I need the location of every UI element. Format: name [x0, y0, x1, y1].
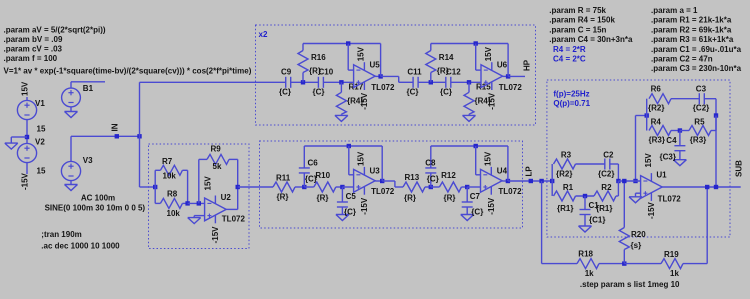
svg-text:TL072: TL072 — [499, 83, 523, 92]
resistor R15 — [464, 92, 474, 114]
behavioral source B1 — [62, 88, 81, 107]
svg-text:C4 = 2*C: C4 = 2*C — [553, 55, 586, 64]
ground C1 — [579, 226, 592, 232]
node T2 to minus — [633, 179, 637, 183]
wire C6 up — [303, 146, 305, 168]
svg-text:R6: R6 — [651, 84, 662, 93]
svg-text:SUB: SUB — [735, 160, 744, 177]
wire R5 left lead — [680, 130, 689, 132]
svg-text:.param C4 = 30n+3n*a: .param C4 = 30n+3n*a — [549, 35, 633, 44]
wire LP2 minus drop — [475, 146, 477, 175]
label R10 — [315, 171, 330, 180]
label HP — [523, 59, 532, 71]
wire LP1 minus drop — [348, 146, 350, 175]
svg-text:Q(p)=0.71: Q(p)=0.71 — [553, 99, 590, 108]
label C12 — [446, 68, 461, 77]
text .param R — [549, 6, 606, 15]
wire R16 bottom lead — [302, 73, 304, 83]
svg-text:TL072: TL072 — [498, 187, 522, 196]
wire C8 down — [430, 173, 432, 187]
svg-text:R20: R20 — [631, 230, 646, 239]
wire U5 to C11 — [381, 75, 399, 77]
wire U5 fb up — [380, 44, 382, 77]
wire R7R8 left — [154, 170, 156, 203]
value {C1} of C1 — [589, 216, 605, 225]
value {R2} of R6 — [648, 104, 664, 113]
value {C} of C11 — [407, 87, 419, 96]
value SINE — [45, 204, 146, 213]
ground C7 — [461, 215, 474, 221]
wire U2 plus lead — [194, 215, 204, 217]
value {R} of R11 — [277, 193, 289, 202]
node R9 branch — [197, 201, 201, 205]
value {C} of C6 — [305, 174, 317, 183]
svg-text:R18: R18 — [578, 249, 593, 258]
svg-text:V3: V3 — [83, 156, 93, 165]
wire V1-V2 — [26, 120, 28, 144]
label R12 — [441, 171, 456, 180]
ground C4 — [673, 160, 686, 166]
text .param R3 — [651, 35, 734, 44]
wire R9 right lead — [229, 158, 238, 160]
svg-text:{C}: {C} — [279, 87, 291, 96]
node T1 in — [550, 179, 554, 183]
wire R19 up — [706, 187, 708, 264]
ground U1 plus — [629, 197, 642, 203]
label -15V U6 — [488, 92, 497, 110]
svg-text:C6: C6 — [308, 158, 319, 167]
svg-text:{C}: {C} — [407, 87, 419, 96]
value {R3} of R5 — [690, 136, 706, 145]
label R1 — [563, 183, 574, 192]
resistor R5 — [689, 126, 711, 136]
wire R13 right lead — [425, 186, 431, 188]
node LP2 minus branch — [474, 144, 478, 148]
label x2 — [259, 30, 268, 39]
wire to C11 — [399, 81, 413, 83]
svg-text:C10: C10 — [319, 68, 334, 77]
wire R10 right lead — [336, 186, 343, 188]
value {C} of C12 — [440, 87, 452, 96]
value 1k R19 — [670, 269, 679, 278]
label R2 — [601, 183, 612, 192]
svg-text:.param R1 = 21k-1k*a: .param R1 = 21k-1k*a — [651, 16, 732, 25]
node C4 tap — [678, 128, 682, 132]
op-amp U1 — [641, 173, 663, 201]
svg-text:C8: C8 — [425, 158, 436, 167]
node LP1 minus branch — [347, 144, 351, 148]
value 10k R8 — [167, 209, 181, 218]
capacitor C5 — [337, 202, 348, 207]
wire T2 bottom rise — [715, 116, 717, 131]
wire C1 down — [584, 215, 586, 227]
voltage source V2 — [17, 143, 36, 162]
svg-text:{R2}: {R2} — [556, 170, 572, 179]
text .step param — [580, 280, 680, 289]
node R18R19 — [622, 261, 626, 265]
svg-text:C12: C12 — [446, 68, 461, 77]
label B1 — [83, 84, 94, 93]
dashed box low-pass — [260, 141, 523, 228]
op-amp U5 — [354, 62, 376, 90]
wire R1 to R2 — [576, 195, 595, 197]
wire fb rail LP2 — [431, 145, 508, 147]
wire V3 down — [70, 181, 72, 185]
capacitor C2 — [605, 159, 610, 170]
wire R15 bottom lead — [468, 114, 470, 115]
svg-text:15: 15 — [37, 167, 46, 176]
svg-text:.param C3 = 230n-10n*a: .param C3 = 230n-10n*a — [651, 64, 742, 73]
wire feedback rail 1 — [303, 43, 381, 45]
label C7 — [470, 192, 481, 201]
wire U6 fb up — [507, 44, 509, 77]
label R20 — [631, 230, 646, 239]
voltage source V3 — [61, 161, 80, 180]
svg-text:U2: U2 — [221, 193, 232, 202]
wire R20 bottom lead — [623, 250, 625, 264]
wire R12 left lead — [431, 186, 440, 188]
text .param aV — [4, 26, 106, 35]
text Q(p)=0.71 — [553, 99, 590, 108]
label R14 — [439, 53, 454, 62]
wire R9 left lead — [199, 158, 207, 160]
text .param R2 — [651, 25, 732, 34]
svg-text:U3: U3 — [370, 166, 381, 175]
ground supply — [5, 143, 18, 149]
wire U2 out — [226, 208, 238, 210]
wire R6 to C3 — [671, 98, 699, 100]
op-amp U6 — [481, 62, 503, 90]
label LP — [525, 166, 534, 177]
svg-text:{R}: {R} — [277, 193, 289, 202]
capacitor C9 — [286, 77, 291, 88]
svg-text:V2: V2 — [35, 138, 45, 147]
label U6 — [497, 61, 508, 70]
label R3 — [561, 151, 572, 160]
label -15V U5 — [360, 92, 369, 110]
wire minus lead 2 — [476, 69, 481, 71]
node LP1 A — [302, 185, 306, 189]
resistor R10 — [314, 182, 336, 192]
label V2 — [35, 138, 45, 147]
node LP2 B — [465, 185, 469, 189]
value {R} of R10 — [317, 193, 329, 202]
label R4 — [651, 118, 662, 127]
wire minus drop 1 — [347, 44, 349, 71]
label R9 — [211, 145, 222, 154]
value 10k R7 — [163, 171, 177, 180]
text .param C3 — [651, 64, 742, 73]
svg-text:.param C = 15n: .param C = 15n — [549, 25, 606, 34]
resistor R11 — [273, 182, 295, 192]
text .param C — [549, 25, 606, 34]
svg-text:.param C2 = 47n: .param C2 = 47n — [651, 55, 713, 64]
wire R7 left lead — [155, 169, 160, 171]
value {R4} of R17 — [347, 97, 363, 106]
svg-text:R11: R11 — [276, 174, 291, 183]
svg-text:R19: R19 — [664, 250, 679, 259]
wire R11 right lead — [295, 186, 304, 188]
wire R9 left drop — [198, 159, 200, 203]
dashed box gain stage — [149, 144, 250, 249]
svg-text:15V: 15V — [484, 46, 493, 61]
svg-text:.param R3 = 61k+1k*a: .param R3 = 61k+1k*a — [651, 35, 734, 44]
node U3 out — [380, 179, 384, 183]
svg-text:TL072: TL072 — [371, 187, 395, 196]
resistor R8 — [160, 198, 182, 208]
value {R} of R13 — [404, 194, 416, 203]
svg-text:-15V: -15V — [647, 201, 656, 219]
svg-text:1k: 1k — [670, 269, 679, 278]
svg-text:.step param s list 1meg 10: .step param s list 1meg 10 — [580, 280, 680, 289]
svg-text:C2: C2 — [603, 151, 614, 160]
label U1 — [656, 171, 667, 180]
value 15 — [37, 167, 46, 176]
svg-text:R14: R14 — [439, 53, 454, 62]
wire T1 bottom rise — [617, 181, 619, 196]
label 15V U1 — [644, 153, 653, 168]
dashed box notch f(p) — [547, 80, 730, 237]
label TL072 U1 — [658, 194, 682, 203]
wire R2 right — [616, 195, 618, 197]
svg-text:R2: R2 — [601, 183, 612, 192]
node LP label — [529, 179, 533, 183]
svg-text:{C}: {C} — [471, 208, 483, 217]
resistor R17 — [336, 92, 346, 114]
svg-text:.param a = 1: .param a = 1 — [651, 6, 698, 15]
voltage source V1 — [17, 100, 36, 119]
ground U2 plus — [188, 218, 201, 224]
wire R19 right lead — [683, 263, 707, 265]
resistor R20 — [619, 228, 629, 250]
wire T2 top drop — [715, 99, 717, 116]
svg-text:15V: 15V — [357, 151, 366, 166]
label C3 — [696, 84, 707, 93]
node T1 out top — [616, 179, 620, 183]
svg-text:TL072: TL072 — [222, 215, 246, 224]
svg-text:R9: R9 — [211, 145, 222, 154]
svg-text:U6: U6 — [497, 61, 508, 70]
label R7 — [162, 157, 173, 166]
text .param bV — [4, 35, 63, 44]
node U4 out — [506, 179, 510, 183]
label U2 — [221, 193, 232, 202]
wire C8 up — [430, 146, 432, 168]
wire C7 up — [466, 187, 468, 202]
text tran — [41, 230, 81, 239]
svg-text:R12: R12 — [441, 171, 456, 180]
wire to U3 plus — [342, 186, 353, 188]
node R19 tap — [705, 185, 709, 189]
svg-text:.param R4 = 150k: .param R4 = 150k — [549, 16, 615, 25]
node IN label — [115, 134, 119, 138]
node T2 tap — [714, 185, 718, 189]
label C8 — [425, 158, 436, 167]
wire gain out — [238, 186, 273, 188]
text .param cV — [4, 45, 63, 54]
wire R18 right lead — [599, 263, 624, 265]
svg-text:R16: R16 — [311, 53, 326, 62]
wire LP net — [508, 180, 552, 182]
label C10 — [319, 68, 334, 77]
svg-text:x2: x2 — [259, 30, 268, 39]
svg-text:IN: IN — [111, 123, 120, 131]
wire R17 top lead — [340, 82, 342, 92]
svg-text:{C}: {C} — [313, 87, 325, 96]
svg-text:{R1}: {R1} — [557, 204, 573, 213]
node U2 out junction — [236, 185, 240, 189]
capacitor C1 — [580, 210, 591, 215]
svg-text:R10: R10 — [315, 171, 330, 180]
op-amp U4 — [481, 167, 503, 195]
svg-text:{C}: {C} — [344, 208, 356, 217]
svg-text:R7: R7 — [162, 157, 173, 166]
wire T1 up — [551, 164, 553, 181]
text f(p)=25Hz — [553, 90, 589, 99]
label C4 — [666, 136, 677, 145]
svg-text:{C2}: {C2} — [598, 170, 614, 179]
wire minus lead 1 — [348, 69, 353, 71]
svg-text:10k: 10k — [167, 209, 181, 218]
wire SUB net — [662, 186, 741, 188]
text .param C4 — [549, 35, 633, 44]
capacitor C3 — [699, 93, 704, 104]
wire IN row — [71, 135, 140, 137]
value {R2} of R3 — [556, 170, 572, 179]
svg-text:TL072: TL072 — [371, 83, 395, 92]
svg-text:.param aV = 5/(2*sqrt(2*pi)): .param aV = 5/(2*sqrt(2*pi)) — [4, 26, 106, 35]
svg-text:{R3}: {R3} — [649, 136, 665, 145]
svg-text:1k: 1k — [585, 269, 594, 278]
wire U5 step down — [398, 76, 400, 82]
wire C10 to opamp — [323, 81, 353, 83]
wire R20 top lead — [623, 181, 625, 228]
svg-text:{C}: {C} — [440, 87, 452, 96]
label 15V U2 — [204, 176, 213, 191]
wire T2 left row — [636, 115, 647, 117]
wire C12 to opamp — [451, 81, 481, 83]
node A2 — [429, 80, 433, 84]
wire to U4 plus — [467, 186, 480, 188]
wire T2 up — [646, 99, 648, 116]
svg-text:15: 15 — [37, 125, 46, 134]
wire gnd drop — [10, 137, 12, 143]
wire R7 right lead — [182, 169, 187, 171]
op-amp U3 — [354, 167, 376, 195]
wire C7 down — [466, 207, 468, 215]
wire B1 down — [70, 107, 72, 112]
wire U4 out — [502, 180, 508, 182]
svg-text:-15V: -15V — [487, 197, 496, 215]
ground R15 — [463, 115, 476, 121]
wire C5 up — [341, 187, 343, 202]
wire minus row U2 — [188, 202, 205, 204]
wire T1 down — [551, 181, 553, 196]
resistor R3 — [554, 159, 576, 169]
svg-text:AC 100m: AC 100m — [81, 193, 115, 202]
node A1 — [301, 80, 305, 84]
wire C1 up — [584, 196, 586, 210]
node T2 right — [714, 113, 718, 117]
value {R1} of R2 — [596, 204, 612, 213]
wire C6 down — [303, 173, 305, 187]
svg-text:R4: R4 — [651, 118, 662, 127]
wire LP2 minus lead — [476, 174, 481, 176]
resistor R2 — [594, 191, 616, 201]
wire V3 up — [70, 136, 72, 161]
label TL072 U6 — [499, 83, 523, 92]
label R5 — [694, 118, 705, 127]
svg-text:HP: HP — [523, 59, 532, 71]
value {C} of C5 — [344, 208, 356, 217]
capacitor C8 — [425, 168, 436, 173]
label C9 — [281, 68, 292, 77]
label U5 — [370, 61, 381, 70]
value {C} of C8 — [427, 174, 439, 183]
wire U1 minus lead — [618, 180, 640, 182]
node R7R8 join — [185, 201, 189, 205]
node B2pin — [467, 80, 471, 84]
wire C2 right — [610, 163, 619, 165]
capacitor C7 — [462, 202, 473, 207]
wire fb rail LP1 — [304, 145, 382, 147]
value {C} of C10 — [313, 87, 325, 96]
svg-text:U1: U1 — [656, 171, 667, 180]
label 15V U5 — [357, 46, 366, 61]
wire R17 bottom lead — [340, 114, 342, 115]
node minus branch 1 — [346, 41, 350, 45]
label TL072 U3 — [371, 187, 395, 196]
resistor R13 — [403, 182, 425, 192]
dashed box x2 — [256, 25, 536, 125]
wire R14 bottom lead — [430, 73, 432, 83]
resistor R4 — [649, 126, 671, 136]
svg-text:.param bV = .09: .param bV = .09 — [4, 35, 63, 44]
text V= formula — [4, 67, 252, 76]
value 5k R9 — [213, 162, 222, 171]
label -15V U2 — [211, 226, 220, 244]
svg-text:C1: C1 — [589, 201, 600, 210]
label TL072 U2 — [222, 215, 246, 224]
wire U3 out — [375, 180, 382, 182]
wire T2 down — [646, 116, 648, 131]
resistor R19 — [661, 259, 683, 269]
node LP1 B — [340, 185, 344, 189]
value {C} of C9 — [279, 87, 291, 96]
value {R1} of R1 — [557, 204, 573, 213]
svg-text:C4: C4 — [666, 136, 677, 145]
svg-text:f(p)=25Hz: f(p)=25Hz — [553, 90, 589, 99]
label R18 — [578, 249, 593, 258]
label C1 — [589, 201, 600, 210]
value {C3} of C4 — [660, 152, 676, 161]
value 15 — [37, 125, 46, 134]
wire T1 top drop — [617, 164, 619, 181]
node U5 out — [378, 74, 382, 78]
svg-text:R3: R3 — [561, 151, 572, 160]
svg-text:-15V: -15V — [211, 226, 220, 244]
wire LP1 minus lead — [349, 174, 354, 176]
value {R} of R14 — [437, 66, 449, 75]
node LP2 A — [429, 185, 433, 189]
wire R18 drop — [541, 181, 543, 264]
svg-text:U4: U4 — [497, 166, 508, 175]
wire U5 out — [375, 75, 380, 77]
resistor R18 — [577, 259, 599, 269]
text .param a — [651, 6, 698, 15]
svg-text:.param f = 100: .param f = 100 — [4, 54, 58, 63]
wire 15V stub — [26, 97, 28, 100]
